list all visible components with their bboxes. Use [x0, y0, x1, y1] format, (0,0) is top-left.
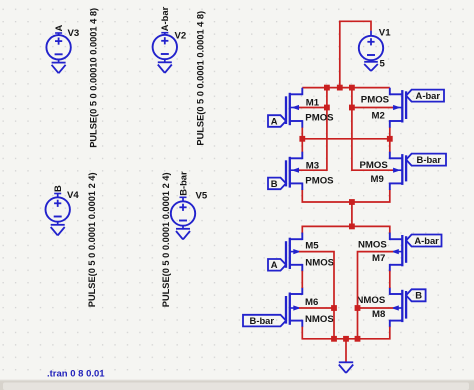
label NMOS of M5: [305, 258, 334, 269]
node flag B-bar on V5: [177, 171, 188, 197]
label V5: [196, 190, 208, 201]
wire right inner vertical to M9 bulk: [352, 88, 393, 171]
value 5 of V1: [380, 58, 386, 69]
label M1: [306, 98, 320, 109]
label M8: [372, 309, 386, 320]
svg-text:V3: V3: [68, 28, 80, 39]
wire M1 bulk: [299, 107, 327, 109]
gate flag A-bar on M7: [406, 235, 441, 247]
svg-text:B: B: [52, 185, 63, 192]
svg-text:A-bar: A-bar: [416, 90, 441, 101]
label V4: [67, 190, 79, 201]
svg-text:PMOS: PMOS: [305, 176, 334, 187]
svg-text:PULSE(0 5 0 0.0001 0.0001 4 8): PULSE(0 5 0 0.0001 0.0001 4 8): [196, 11, 206, 146]
node flag A on V3: [53, 25, 64, 34]
junction NMOS top rail center: [349, 224, 355, 230]
transistor M6 NMOS: [286, 287, 302, 327]
label M3: [306, 160, 319, 171]
wire NMOS top rail: [302, 226, 390, 233]
svg-text:B-bar: B-bar: [177, 171, 188, 196]
junction mid rail right: [387, 136, 393, 142]
svg-text:B-bar: B-bar: [250, 315, 275, 326]
status bar: [0, 380, 474, 390]
label V2: [175, 31, 187, 42]
wire M7 source to M8 drain: [389, 271, 391, 288]
wire V1 to VDD rail: [340, 21, 371, 87]
ground below V3: [52, 60, 66, 74]
junction bottom rail right: [355, 336, 361, 342]
gate flag B-bar on M6: [243, 315, 286, 327]
label PMOS of M3: [305, 176, 334, 187]
ground below V5: [176, 226, 190, 240]
svg-text:A: A: [271, 259, 278, 270]
junction M2 bulk: [349, 105, 355, 111]
wire bottom rail: [302, 327, 390, 339]
transistor M5 NMOS: [286, 233, 302, 272]
svg-text:M9: M9: [371, 174, 384, 185]
svg-text:NMOS: NMOS: [357, 295, 386, 306]
svg-text:PULSE(0 5 0 0.0001 0.0001 2 4): PULSE(0 5 0 0.0001 0.0001 2 4): [161, 172, 171, 307]
gate flag B on M3: [268, 178, 286, 190]
junction on top rail left: [324, 85, 330, 91]
svg-text:M5: M5: [305, 241, 319, 252]
label M2: [372, 110, 385, 121]
node flag B on V4: [52, 185, 63, 194]
svg-text:PMOS: PMOS: [305, 113, 334, 124]
svg-text:V1: V1: [379, 27, 391, 38]
wire M1 drain to M3 source: [301, 127, 303, 152]
svg-text:A-bar: A-bar: [414, 235, 439, 246]
value text PULSE V4: [87, 172, 97, 307]
label M5: [305, 241, 319, 252]
junction bottom rail center: [343, 336, 349, 342]
transistor M2 PMOS: [390, 88, 406, 128]
label V1: [379, 27, 391, 38]
svg-text:M3: M3: [306, 160, 319, 171]
label PMOS of M1: [305, 113, 334, 124]
svg-text:A-bar: A-bar: [159, 6, 170, 31]
transistor M1 PMOS: [286, 88, 302, 128]
wire mid rail: [302, 138, 390, 140]
svg-text:B: B: [271, 178, 278, 189]
voltage source V1: [359, 31, 383, 61]
gate flag B-bar on M9: [406, 154, 446, 166]
label NMOS of M6: [305, 314, 334, 325]
wire M7 bulk to right vertical: [358, 252, 394, 339]
svg-text:A: A: [271, 115, 278, 126]
wire M2 drain to M9 source: [389, 127, 391, 152]
svg-text:.tran 0 8 0.01: .tran 0 8 0.01: [47, 369, 105, 380]
value text PULSE V5: [161, 172, 171, 307]
svg-text:M8: M8: [372, 309, 386, 320]
wire center connector: [351, 202, 353, 226]
junction on top rail right: [349, 85, 355, 91]
junction bottom rail left: [331, 336, 337, 342]
svg-text:NMOS: NMOS: [358, 240, 387, 251]
svg-text:NMOS: NMOS: [305, 314, 334, 325]
wire to ground: [345, 339, 347, 362]
transistor M7 NMOS: [390, 233, 406, 272]
svg-text:V5: V5: [196, 190, 208, 201]
junction M1 bulk: [324, 105, 330, 111]
wire PMOS bottom rail: [302, 189, 390, 202]
label M6: [305, 297, 318, 308]
gate flag A on M1: [268, 115, 286, 127]
svg-text:M7: M7: [372, 253, 385, 264]
voltage source V4: [46, 194, 70, 222]
svg-text:B-bar: B-bar: [417, 154, 442, 165]
voltage source V3: [46, 33, 70, 60]
svg-text:B: B: [415, 290, 422, 301]
VDD top rail wire: [302, 87, 390, 89]
transistor M3 PMOS: [286, 152, 302, 190]
junction PMOS bottom rail center: [349, 199, 355, 205]
svg-text:PMOS: PMOS: [360, 160, 389, 171]
transistor M9 PMOS: [390, 152, 406, 190]
svg-text:M2: M2: [372, 110, 385, 121]
ground below V1: [364, 60, 378, 71]
svg-text:A: A: [53, 25, 64, 32]
label PMOS of M2: [361, 95, 390, 106]
svg-text:PULSE(0 5 0 0.0001 0.0001 2 4): PULSE(0 5 0 0.0001 0.0001 2 4): [87, 172, 97, 307]
wire M5 source to M6 drain: [301, 271, 303, 288]
gate flag B on M8: [406, 289, 426, 301]
ground below V4: [51, 222, 65, 236]
svg-text:PULSE(0 5 0 0.00010 0.0001 4 8: PULSE(0 5 0 0.00010 0.0001 4 8): [88, 8, 98, 148]
junction M8 bulk: [355, 305, 361, 311]
directive .tran: [47, 369, 105, 380]
voltage source V2: [153, 33, 177, 59]
junction on top rail center: [337, 85, 343, 91]
label NMOS of M8: [357, 295, 386, 306]
label NMOS of M7: [358, 240, 387, 251]
label M7: [372, 253, 385, 264]
junction M6 bulk: [331, 305, 337, 311]
value text PULSE V3: [88, 8, 98, 148]
wire left inner vertical to M3 bulk: [299, 88, 327, 171]
ground main: [339, 362, 353, 373]
label M9: [371, 174, 384, 185]
value text PULSE V2: [196, 11, 206, 146]
wire M6 bulk: [299, 307, 334, 309]
svg-text:M1: M1: [306, 98, 320, 109]
svg-text:PMOS: PMOS: [361, 95, 390, 106]
junction mid rail left: [299, 136, 305, 142]
wire M8 bulk: [358, 307, 394, 309]
svg-text:V4: V4: [67, 190, 79, 201]
label V3: [68, 28, 80, 39]
ground below V2: [158, 59, 172, 73]
wire M2 bulk: [352, 107, 393, 109]
label PMOS of M9: [360, 160, 389, 171]
svg-text:M6: M6: [305, 297, 318, 308]
gate flag A on M5: [268, 259, 286, 271]
wire M5 bulk to left vertical: [299, 252, 334, 339]
gate flag A-bar on M2: [406, 90, 444, 102]
svg-text:5: 5: [380, 58, 386, 69]
voltage source V5: [171, 197, 195, 225]
svg-text:NMOS: NMOS: [305, 258, 334, 269]
transistor M8 NMOS: [390, 287, 406, 327]
node flag A-bar on V2: [159, 6, 170, 32]
svg-text:V2: V2: [175, 31, 187, 42]
